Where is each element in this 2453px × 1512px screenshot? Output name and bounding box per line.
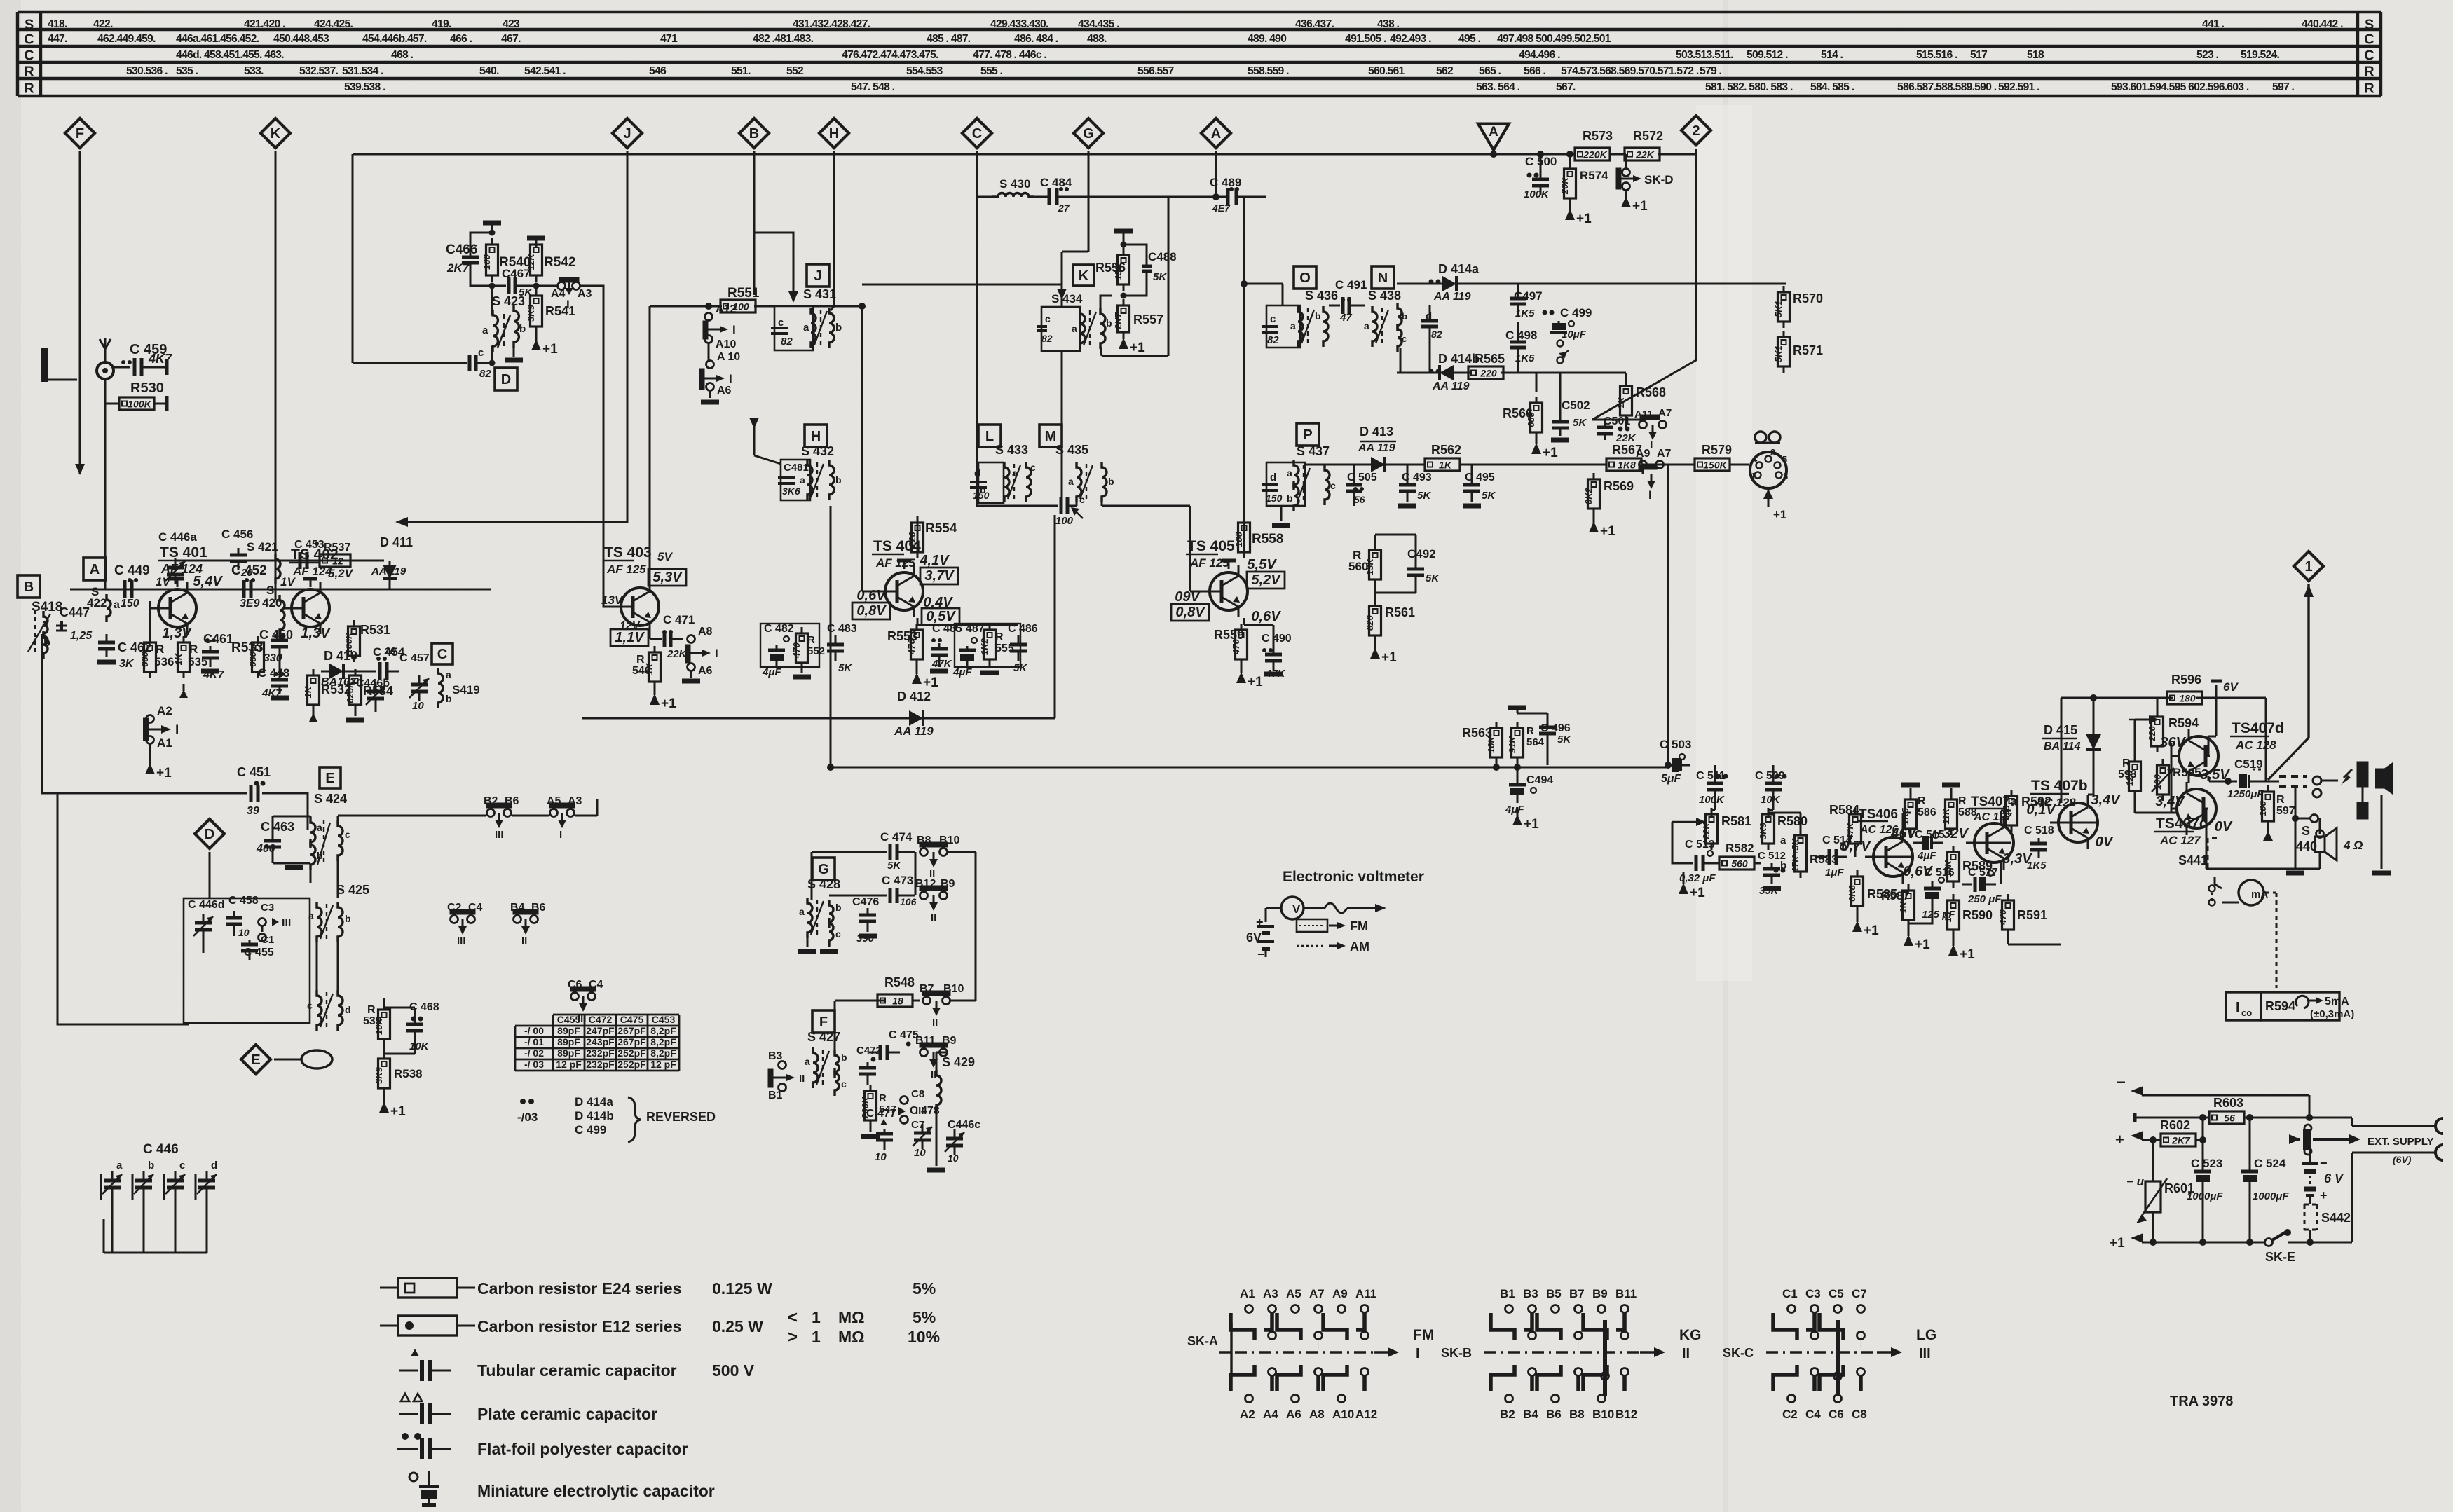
svg-text:B4: B4 bbox=[1523, 1408, 1538, 1421]
terminal A9 A7 bbox=[1636, 448, 1672, 502]
terminal A11 A7 bbox=[1634, 407, 1672, 451]
svg-text:<: < bbox=[788, 1308, 798, 1327]
capacitor C456 bbox=[221, 528, 253, 579]
svg-text:C 498: C 498 bbox=[1505, 329, 1537, 342]
svg-text:-/ 01: -/ 01 bbox=[524, 1036, 544, 1047]
svg-text:R: R bbox=[1918, 795, 1926, 807]
svg-text:II: II bbox=[932, 1017, 938, 1029]
svg-text:1,25: 1,25 bbox=[70, 630, 93, 642]
svg-text:C 483: C 483 bbox=[827, 623, 857, 635]
svg-text:4μF: 4μF bbox=[1917, 850, 1936, 862]
svg-text:R584: R584 bbox=[1829, 803, 1859, 817]
svg-text:441 .: 441 . bbox=[2202, 18, 2225, 30]
capacitor C453 bbox=[294, 539, 324, 569]
svg-text:R: R bbox=[879, 1092, 887, 1104]
svg-text:D 412: D 412 bbox=[897, 689, 931, 703]
svg-text:471: 471 bbox=[660, 33, 678, 45]
svg-text:100K: 100K bbox=[1524, 188, 1550, 200]
svg-text:A8: A8 bbox=[698, 626, 713, 638]
legend foil cap bbox=[397, 1433, 688, 1459]
svg-text:100: 100 bbox=[1234, 531, 1244, 547]
capacitor C449 bbox=[112, 563, 160, 610]
svg-text:TS407d: TS407d bbox=[2232, 720, 2284, 736]
switch block SK-B bbox=[1441, 1287, 1702, 1421]
svg-text:491.505 .: 491.505 . bbox=[1345, 33, 1386, 45]
capacitor C483 bbox=[827, 623, 857, 674]
label TRA3978 bbox=[2170, 1394, 2233, 1409]
node E box bbox=[320, 767, 341, 788]
svg-text:R537: R537 bbox=[324, 542, 350, 554]
ext supply text bbox=[2367, 1136, 2433, 1165]
svg-text:150K: 150K bbox=[1703, 460, 1727, 471]
svg-text:A8: A8 bbox=[1309, 1408, 1325, 1421]
svg-text:509.512 .: 509.512 . bbox=[1747, 49, 1788, 61]
resistor R548 bbox=[870, 975, 920, 1007]
svg-text:b: b bbox=[980, 484, 986, 495]
plus1 under R553 bbox=[912, 664, 938, 690]
reference table frame bbox=[18, 12, 2381, 97]
svg-text:8K2: 8K2 bbox=[1583, 487, 1594, 504]
svg-text:D 414a: D 414a bbox=[1438, 262, 1480, 276]
node D box bbox=[495, 368, 517, 390]
svg-text:423: 423 bbox=[503, 18, 520, 30]
svg-text:1K5: 1K5 bbox=[2027, 860, 2047, 872]
diode D411 bbox=[371, 535, 413, 589]
svg-text:M: M bbox=[1045, 429, 1057, 444]
svg-text:485 . 487.: 485 . 487. bbox=[927, 33, 971, 45]
node B box bbox=[18, 575, 40, 598]
resistor R572 bbox=[1618, 129, 1667, 160]
svg-text:454.446b.457.: 454.446b.457. bbox=[362, 33, 427, 45]
node J box bbox=[807, 264, 829, 287]
terminals B2 B6 row bbox=[484, 795, 519, 841]
C455 variants table bbox=[515, 1014, 679, 1071]
capacitor 100 bbox=[1051, 497, 1083, 527]
svg-text:III: III bbox=[282, 917, 291, 929]
svg-text:R581: R581 bbox=[1721, 814, 1751, 828]
transformer S433 bbox=[970, 443, 1036, 503]
svg-text:AA 119: AA 119 bbox=[1432, 380, 1470, 392]
svg-text:+1: +1 bbox=[1915, 937, 1930, 952]
svg-text:c: c bbox=[478, 347, 484, 359]
transformer S432 bbox=[778, 444, 842, 500]
svg-text:15: 15 bbox=[1943, 912, 1953, 922]
node F box bbox=[812, 1010, 835, 1033]
svg-text:C472: C472 bbox=[856, 1045, 882, 1057]
svg-text:C 456: C 456 bbox=[221, 528, 253, 541]
svg-text:AF 125: AF 125 bbox=[1189, 556, 1229, 570]
svg-text:+1: +1 bbox=[1690, 886, 1705, 900]
svg-text:a: a bbox=[799, 906, 805, 917]
svg-text:400: 400 bbox=[256, 843, 275, 855]
capacitor C462 bbox=[97, 634, 151, 670]
svg-text:A: A bbox=[1489, 125, 1498, 139]
wire A10 row bbox=[708, 343, 710, 360]
svg-text:R538: R538 bbox=[394, 1067, 423, 1080]
svg-text:B6: B6 bbox=[1546, 1408, 1562, 1421]
svg-text:S 429: S 429 bbox=[942, 1055, 975, 1069]
resistor R570 bbox=[1773, 286, 1823, 328]
svg-text:466 .: 466 . bbox=[450, 33, 472, 45]
svg-text:440.442 .: 440.442 . bbox=[2302, 18, 2343, 30]
svg-text:b: b bbox=[1315, 310, 1321, 322]
svg-text:II: II bbox=[521, 935, 527, 947]
svg-text:5μF: 5μF bbox=[1661, 773, 1682, 785]
svg-text:+1: +1 bbox=[1960, 947, 1975, 962]
node N box bbox=[1372, 266, 1394, 289]
svg-text:>: > bbox=[788, 1328, 798, 1347]
svg-text:A7: A7 bbox=[1309, 1287, 1325, 1300]
svg-text:530.536 .: 530.536 . bbox=[126, 65, 168, 77]
svg-text:c: c bbox=[307, 1000, 313, 1011]
diode D414b bbox=[1429, 352, 1480, 392]
svg-text:447.: 447. bbox=[48, 33, 67, 45]
svg-text:C494: C494 bbox=[1526, 774, 1553, 786]
transformer S438 resonator bbox=[1364, 289, 1407, 352]
svg-text:467.: 467. bbox=[501, 33, 521, 45]
svg-text:AA 119: AA 119 bbox=[1358, 442, 1395, 454]
svg-text:1K5: 1K5 bbox=[1515, 352, 1535, 364]
resistor R582 bbox=[1712, 841, 1761, 870]
legend plate cap bbox=[399, 1394, 657, 1424]
psu bottom rail bbox=[2110, 1233, 2352, 1251]
svg-text:R: R bbox=[24, 64, 34, 80]
svg-text:+1: +1 bbox=[1600, 524, 1615, 539]
svg-text:563. 564 .: 563. 564 . bbox=[1476, 81, 1520, 93]
svg-text:47K: 47K bbox=[931, 658, 952, 670]
svg-text:c: c bbox=[1030, 462, 1036, 473]
svg-text:15K: 15K bbox=[1943, 859, 1953, 877]
svg-text:8,2pF: 8,2pF bbox=[650, 1047, 676, 1059]
svg-text:C6: C6 bbox=[1829, 1408, 1844, 1421]
svg-text:C7: C7 bbox=[1852, 1287, 1867, 1300]
svg-text:R574: R574 bbox=[1580, 169, 1608, 182]
svg-text:17K+5K: 17K+5K bbox=[1790, 837, 1801, 872]
svg-text:517: 517 bbox=[1970, 49, 1988, 61]
capacitor C517 bbox=[1962, 867, 2002, 905]
svg-text:390: 390 bbox=[2001, 804, 2011, 820]
transistor TS407a bbox=[1966, 795, 2018, 870]
transformer S436 resonator bbox=[1262, 289, 1338, 348]
coil S430 bbox=[992, 177, 1034, 197]
svg-text:1: 1 bbox=[1751, 471, 1756, 481]
resistor R585 bbox=[1847, 870, 1897, 938]
svg-text:b: b bbox=[1287, 493, 1293, 504]
svg-text:C1: C1 bbox=[1782, 1287, 1798, 1300]
table row S numbers bbox=[48, 18, 2343, 30]
svg-text:1: 1 bbox=[812, 1308, 821, 1326]
node 2 connector diamond bbox=[1681, 116, 1711, 145]
capacitor C493 bbox=[1398, 465, 1432, 506]
svg-text:C 484: C 484 bbox=[1040, 176, 1072, 189]
svg-text:431.432.428.427.: 431.432.428.427. bbox=[793, 18, 870, 30]
capacitor C509 bbox=[1755, 765, 1787, 806]
resistor R546 bbox=[632, 646, 676, 711]
svg-text:S442: S442 bbox=[2321, 1211, 2351, 1225]
svg-text:2K7: 2K7 bbox=[1113, 312, 1123, 330]
svg-text:1: 1 bbox=[2304, 559, 2312, 575]
svg-text:S: S bbox=[266, 584, 274, 597]
node F connector diamond bbox=[65, 118, 95, 148]
svg-text:Tubular ceramic capacitor: Tubular ceramic capacitor bbox=[477, 1361, 677, 1380]
node C connector diamond bbox=[962, 118, 992, 148]
svg-text:C481: C481 bbox=[784, 462, 809, 474]
svg-text:A1: A1 bbox=[157, 736, 172, 750]
svg-text:+: + bbox=[2320, 1188, 2328, 1202]
svg-text:554.553: 554.553 bbox=[906, 65, 943, 77]
svg-text:R571: R571 bbox=[1793, 343, 1823, 357]
svg-text:150: 150 bbox=[1266, 493, 1283, 504]
transformer S434 bbox=[1037, 292, 1112, 351]
transformer S423 bbox=[482, 286, 526, 366]
wire S432 drop bbox=[830, 506, 832, 767]
svg-text:C: C bbox=[2364, 32, 2374, 48]
svg-text:470: 470 bbox=[1997, 909, 2008, 925]
capacitor d82 bbox=[1421, 305, 1442, 341]
svg-text:22K: 22K bbox=[667, 648, 688, 660]
svg-text:b: b bbox=[1780, 860, 1786, 872]
svg-text:1000μF: 1000μF bbox=[2253, 1190, 2289, 1202]
capacitor C490 bbox=[1262, 633, 1292, 680]
resistor R569 bbox=[1583, 473, 1634, 539]
capacitor C519 bbox=[2216, 757, 2268, 800]
svg-text:-/ 03: -/ 03 bbox=[524, 1059, 544, 1070]
svg-text:5K: 5K bbox=[1557, 734, 1571, 745]
svg-text:A4: A4 bbox=[1263, 1408, 1278, 1421]
capacitor C495 bbox=[1463, 465, 1496, 506]
box around C446d bbox=[184, 898, 310, 1023]
svg-text:B9: B9 bbox=[1592, 1287, 1608, 1300]
svg-text:680: 680 bbox=[139, 651, 150, 666]
svg-text:a: a bbox=[116, 1160, 123, 1171]
box around C482 R552 bbox=[760, 624, 819, 667]
svg-text:Carbon resistor E24 series: Carbon resistor E24 series bbox=[477, 1279, 681, 1298]
capacitor C448 bbox=[258, 664, 289, 699]
svg-text:535 .: 535 . bbox=[176, 65, 198, 77]
svg-text:R568: R568 bbox=[1636, 385, 1666, 399]
svg-text:−: − bbox=[1257, 947, 1265, 961]
svg-text:+1: +1 bbox=[1632, 199, 1648, 214]
svg-text:S419: S419 bbox=[452, 683, 480, 696]
svg-text:S 431: S 431 bbox=[803, 287, 836, 301]
svg-text:180: 180 bbox=[481, 254, 492, 269]
svg-text:B: B bbox=[24, 579, 34, 595]
resistor R535 bbox=[173, 636, 207, 698]
svg-text:b: b bbox=[835, 474, 842, 486]
svg-text:-/03: -/03 bbox=[517, 1111, 538, 1124]
capacitor C518 bbox=[2024, 825, 2054, 872]
svg-text:27: 27 bbox=[1058, 202, 1070, 214]
svg-text:574.573.568.569.570.571.572 .: 574.573.568.569.570.571.572 . bbox=[1561, 65, 1699, 77]
svg-text:R: R bbox=[2122, 757, 2131, 769]
svg-text:C 474: C 474 bbox=[880, 830, 913, 844]
svg-text:C: C bbox=[437, 647, 447, 662]
capacitor C446c bbox=[927, 1119, 980, 1170]
node J connector diamond bbox=[613, 118, 642, 148]
svg-text:b: b bbox=[148, 1160, 154, 1171]
svg-text:89pF: 89pF bbox=[557, 1047, 580, 1059]
svg-text:b: b bbox=[519, 323, 526, 335]
svg-text:495 .: 495 . bbox=[1458, 33, 1481, 45]
svg-text:3: 3 bbox=[1783, 471, 1788, 481]
svg-text:a: a bbox=[1290, 320, 1296, 331]
svg-text:C472: C472 bbox=[589, 1014, 613, 1025]
svg-text:C 495: C 495 bbox=[1465, 472, 1495, 483]
svg-text:V: V bbox=[1292, 902, 1301, 916]
resistor R589 bbox=[1943, 846, 2032, 888]
svg-text:R548: R548 bbox=[884, 975, 915, 989]
transformer S425 lower bbox=[307, 939, 351, 1031]
reversed note bbox=[517, 1095, 716, 1142]
terminals B8 B10 bbox=[917, 834, 959, 880]
svg-text:547. 548 .: 547. 548 . bbox=[851, 81, 895, 93]
svg-text:82: 82 bbox=[1041, 333, 1053, 344]
svg-text:C446b: C446b bbox=[356, 678, 390, 689]
svg-text:100K: 100K bbox=[128, 399, 151, 410]
svg-text:a: a bbox=[805, 1056, 810, 1067]
svg-text:556.557: 556.557 bbox=[1137, 65, 1175, 77]
svg-text:531.534 .: 531.534 . bbox=[342, 65, 383, 77]
wire R551 row bbox=[650, 303, 866, 310]
svg-text:13K: 13K bbox=[1365, 557, 1375, 575]
svg-text:SK-B: SK-B bbox=[1441, 1346, 1472, 1360]
wire M to TS405 bbox=[1102, 505, 1190, 507]
svg-text:0.25 W: 0.25 W bbox=[712, 1317, 763, 1335]
resistor R532 bbox=[303, 669, 351, 722]
svg-text:564: 564 bbox=[1526, 736, 1545, 748]
svg-text:+1: +1 bbox=[1381, 650, 1397, 665]
svg-text:R: R bbox=[1526, 725, 1534, 737]
svg-text:438 .: 438 . bbox=[1377, 18, 1400, 30]
svg-text:552: 552 bbox=[786, 65, 804, 77]
svg-text:C8: C8 bbox=[911, 1088, 924, 1100]
svg-text:1V: 1V bbox=[280, 575, 296, 589]
capacitor C502 bbox=[1551, 373, 1590, 440]
wire G vertical bbox=[1057, 151, 1088, 307]
svg-text:3K9: 3K9 bbox=[374, 1066, 384, 1084]
DIN socket bbox=[1750, 432, 1788, 521]
capacitor C3 C1 bbox=[259, 902, 292, 946]
svg-text:2K7: 2K7 bbox=[2171, 1135, 2191, 1146]
resistor R556 bbox=[1095, 231, 1133, 291]
transistor TS404 bbox=[852, 538, 959, 625]
wire H vertical bbox=[831, 151, 834, 310]
transformer S427 bbox=[805, 1030, 847, 1096]
resistor R603 bbox=[2135, 1096, 2352, 1124]
svg-text:J: J bbox=[814, 268, 821, 284]
svg-text:R557: R557 bbox=[1133, 312, 1163, 327]
electronic voltmeter bbox=[1246, 869, 1424, 961]
svg-text:3K: 3K bbox=[119, 658, 135, 670]
svg-text:B: B bbox=[749, 126, 759, 142]
svg-text:E: E bbox=[325, 771, 334, 786]
terminal A10 A6 wafer2 bbox=[699, 351, 740, 402]
terminals C6 C4 row bbox=[568, 979, 603, 1024]
resistor R565 bbox=[1461, 352, 1510, 379]
svg-text:20: 20 bbox=[240, 567, 253, 579]
svg-text:C 515: C 515 bbox=[1915, 829, 1945, 841]
svg-text:232pF: 232pF bbox=[586, 1047, 615, 1059]
svg-text:593: 593 bbox=[2118, 769, 2137, 781]
svg-text:10K: 10K bbox=[1761, 794, 1781, 806]
svg-text:b: b bbox=[1402, 311, 1407, 322]
svg-text:R579: R579 bbox=[1702, 443, 1732, 457]
svg-text:d: d bbox=[211, 1160, 217, 1171]
capacitor C499 bbox=[1543, 306, 1592, 364]
capacitor C485 bbox=[930, 623, 962, 671]
voltage 0V S441 bbox=[2178, 819, 2233, 869]
svg-text:562: 562 bbox=[1436, 65, 1454, 77]
svg-text:4K7: 4K7 bbox=[261, 687, 282, 699]
terminals B3 B1 bbox=[768, 1050, 805, 1101]
svg-text:C 448: C 448 bbox=[258, 666, 289, 680]
node A box bbox=[83, 558, 106, 580]
svg-text:1K: 1K bbox=[1439, 460, 1452, 471]
svg-text:II: II bbox=[931, 912, 936, 923]
svg-text:LG: LG bbox=[1916, 1327, 1936, 1343]
svg-text:C: C bbox=[2364, 48, 2374, 64]
coil S419 bbox=[438, 668, 480, 708]
svg-text:515.516 .: 515.516 . bbox=[1916, 49, 1957, 61]
resistor R564 bbox=[1507, 722, 1545, 764]
svg-text:C502: C502 bbox=[1562, 399, 1590, 412]
wire B vertical bbox=[753, 151, 756, 295]
svg-text:4μF: 4μF bbox=[952, 666, 972, 678]
terminal A4 A3 bbox=[536, 277, 592, 311]
svg-text:3K9: 3K9 bbox=[526, 304, 536, 322]
svg-text:AA 119: AA 119 bbox=[1433, 291, 1471, 303]
wire TS405 base bbox=[1190, 506, 1201, 591]
svg-text:6V: 6V bbox=[2223, 680, 2239, 694]
svg-text:5K: 5K bbox=[1482, 490, 1496, 502]
svg-text:492.493 .: 492.493 . bbox=[1390, 33, 1431, 45]
svg-text:5,2V: 5,2V bbox=[1251, 572, 1281, 588]
arrow B into S432 bbox=[749, 418, 759, 429]
svg-text:B7: B7 bbox=[1569, 1287, 1585, 1300]
svg-text:5K1: 5K1 bbox=[1773, 301, 1784, 317]
svg-text:5%: 5% bbox=[913, 1279, 936, 1298]
transformer S428 bbox=[798, 877, 842, 951]
svg-text:820K: 820K bbox=[345, 680, 355, 703]
battery 6V bbox=[2302, 1130, 2344, 1204]
svg-text:C492: C492 bbox=[1407, 547, 1436, 561]
svg-text:555 .: 555 . bbox=[980, 65, 1003, 77]
svg-text:I: I bbox=[559, 829, 562, 841]
svg-text:C 499: C 499 bbox=[1560, 306, 1592, 319]
svg-text:C446c: C446c bbox=[948, 1119, 980, 1131]
svg-text:A: A bbox=[90, 562, 100, 577]
svg-text:12 pF: 12 pF bbox=[650, 1059, 676, 1070]
svg-text:b: b bbox=[841, 1052, 847, 1063]
svg-text:B8: B8 bbox=[1569, 1408, 1585, 1421]
capacitor C454 bbox=[352, 645, 405, 680]
svg-text:S 433: S 433 bbox=[995, 443, 1028, 457]
svg-text:R596: R596 bbox=[2171, 673, 2201, 687]
svg-text:1K5: 1K5 bbox=[1515, 308, 1535, 319]
wire LM bottom bus bbox=[978, 500, 1102, 506]
coil S429 bbox=[936, 1055, 975, 1121]
headphone jack plug bbox=[2321, 762, 2393, 818]
svg-text:3K9: 3K9 bbox=[1758, 822, 1768, 839]
wire J vertical and arm bbox=[395, 151, 627, 527]
coil S421 bbox=[247, 540, 280, 584]
resistor R561 bbox=[1365, 600, 1415, 665]
ext supply jacks bbox=[2352, 1118, 2443, 1242]
resistor R563 bbox=[1462, 722, 1503, 764]
svg-text:− u: − u bbox=[2126, 1175, 2145, 1188]
svg-text:R573: R573 bbox=[1583, 129, 1613, 143]
svg-text:a: a bbox=[1068, 476, 1074, 487]
